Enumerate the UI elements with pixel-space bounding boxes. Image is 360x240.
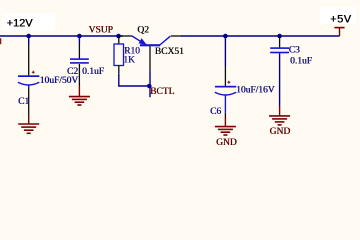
svg-text:C3: C3 [289, 46, 300, 56]
svg-text:0.1uF: 0.1uF [290, 57, 312, 67]
svg-text:+5V: +5V [330, 14, 352, 26]
svg-text:1K: 1K [123, 56, 135, 66]
svg-text:0.1uF: 0.1uF [82, 67, 104, 77]
svg-text:BCTL: BCTL [150, 87, 174, 97]
svg-text:10uF/16V: 10uF/16V [236, 86, 275, 96]
svg-text:C2: C2 [67, 67, 78, 77]
svg-text:10uF/50V: 10uF/50V [40, 76, 79, 86]
svg-text:+12V: +12V [7, 18, 34, 30]
svg-text:GND: GND [270, 127, 291, 137]
svg-text:GND: GND [216, 138, 237, 148]
svg-text:BCX51: BCX51 [155, 47, 184, 57]
svg-text:VSUP: VSUP [89, 26, 113, 36]
svg-text:C1: C1 [18, 97, 29, 107]
svg-text:Q2: Q2 [137, 26, 149, 36]
svg-text:C6: C6 [210, 107, 221, 117]
